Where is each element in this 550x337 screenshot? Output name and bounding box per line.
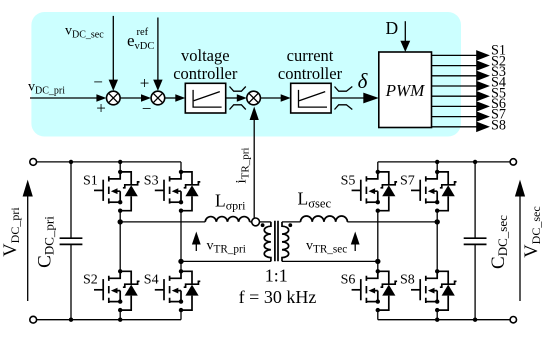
svg-text:S3: S3: [144, 173, 159, 188]
transistor S3: [155, 170, 201, 213]
transformer core: [275, 221, 278, 262]
node rail-leg1 bottom: [118, 318, 122, 322]
svg-text:PWM: PWM: [385, 81, 426, 100]
svg-text:current: current: [287, 46, 334, 65]
wire leg S3S4 upper: [180, 162, 182, 172]
transistor S1: [94, 170, 140, 213]
svg-text:voltage: voltage: [181, 46, 230, 65]
wire leg S1S2 lower: [119, 310, 121, 320]
arrowhead into summer J2: [141, 94, 151, 102]
wire PWM output S3: [432, 64, 506, 81]
svg-text:S8: S8: [491, 117, 506, 133]
arrowhead into PWM: [363, 93, 379, 104]
node rail-leg1: [118, 160, 122, 164]
capacitor CDC_pri: [60, 160, 83, 322]
wire bottom rail secondary: [378, 319, 510, 321]
arrowhead into voltage controller: [175, 94, 185, 102]
capacitor CDC_sec: [464, 160, 487, 322]
wire PWM output S7: [432, 107, 506, 123]
limiter mark lower before J3: [230, 105, 246, 110]
svg-text:D: D: [386, 18, 399, 38]
arrowhead iTR_pri into J3: [250, 107, 259, 121]
wire D input: [404, 21, 406, 43]
svg-text:S5: S5: [341, 173, 356, 188]
svg-text:+: +: [140, 74, 150, 93]
node vDC_pri input wire: [30, 97, 99, 99]
arrow VDC_pri: [23, 180, 33, 301]
arrowhead into J3: [237, 94, 247, 102]
wire e_vDC ref vertical: [157, 18, 159, 82]
transistor S7: [411, 170, 457, 213]
node rail-leg4 top: [435, 160, 439, 164]
wire leg S7S8 middle: [436, 211, 438, 272]
node midpoint B: [178, 259, 183, 264]
arrowhead into current controller: [281, 94, 291, 102]
svg-text:S6: S6: [341, 273, 356, 288]
svg-text:−: −: [142, 99, 152, 118]
wire J3 to current controller: [260, 97, 283, 99]
node midpoint D: [435, 219, 440, 224]
arrow vTR_pri: [192, 232, 201, 252]
svg-text:controller: controller: [173, 64, 238, 83]
arrowhead D into PWM: [400, 41, 410, 52]
wire midpoint A to inductor: [120, 221, 205, 223]
arrow VDC_sec: [515, 180, 525, 301]
polarity dot primary: [261, 223, 265, 227]
wire PWM output S2: [432, 53, 506, 71]
wire PWM output S4: [432, 75, 506, 92]
inductor Lσpri: [205, 217, 250, 222]
svg-text:S2: S2: [83, 273, 98, 288]
wire transformer secondary bottom to midpoint C: [282, 260, 378, 262]
wire top rail secondary: [378, 161, 510, 163]
wire vDC_sec vertical: [112, 16, 114, 82]
wire PWM output S8: [432, 117, 506, 133]
wire transformer bottom to midpoint B: [181, 260, 271, 262]
limiter mark lower after current controller: [335, 105, 353, 110]
svg-text:S7: S7: [400, 173, 415, 188]
svg-text:ref: ref: [137, 27, 149, 38]
svg-text:S4: S4: [144, 273, 159, 288]
transistor S6: [352, 269, 398, 312]
wire leg S3S4 lower: [180, 310, 182, 320]
transistor S4: [155, 269, 201, 312]
svg-text:S1: S1: [83, 173, 98, 188]
limiter mark upper after current controller: [335, 87, 353, 92]
wire leg S5S6 upper: [377, 162, 379, 172]
transistor S8: [411, 269, 457, 312]
control-section background panel: [31, 12, 461, 137]
voltage controller block: [185, 83, 225, 113]
transformer primary winding: [264, 222, 271, 262]
wire leg S3S4 middle: [180, 211, 182, 272]
current sensor node: [252, 218, 260, 226]
wire J2 to voltage controller: [165, 97, 178, 99]
node midpoint A: [118, 219, 123, 224]
wire leg S7S8 lower: [436, 310, 438, 320]
wire leg S1S2 middle: [119, 211, 121, 272]
transistor S5: [352, 170, 398, 213]
wire leg S7S8 upper: [436, 162, 438, 172]
transistor S2: [94, 269, 140, 312]
summer J1: [107, 91, 121, 105]
limiter mark upper before J3: [230, 87, 246, 92]
svg-text:controller: controller: [278, 64, 343, 83]
polarity dot secondary: [288, 223, 292, 227]
svg-text:S8: S8: [400, 273, 415, 288]
arrowhead e_vDC into J2: [153, 80, 162, 91]
arrow vTR_sec: [351, 232, 360, 252]
wire J1 to J2: [120, 97, 144, 99]
arrowhead vDC_sec into J1: [109, 80, 118, 91]
arrowhead into summer J1: [96, 94, 106, 102]
node midpoint C: [375, 259, 380, 264]
node rail-leg4 bottom: [435, 318, 439, 322]
summer J2: [151, 91, 165, 105]
svg-text:δ: δ: [358, 69, 369, 93]
inductor Lσsec: [301, 216, 348, 222]
wire sensor to transformer: [260, 221, 271, 223]
wire leg S5S6 lower: [377, 310, 379, 320]
wire leg S5S6 middle: [377, 211, 379, 272]
wire transformer secondary top to inductor: [282, 221, 301, 223]
wire top rail primary: [37, 161, 181, 163]
svg-text:1:1: 1:1: [265, 266, 288, 286]
svg-text:−: −: [93, 73, 103, 92]
wire PWM output S1: [432, 43, 506, 61]
wire voltage controller to J3: [226, 97, 240, 99]
terminal bottom-right: [510, 317, 516, 323]
wire PWM output S6: [432, 96, 506, 112]
wire iTR_pri feedback vertical: [253, 117, 255, 218]
transformer secondary winding: [282, 222, 289, 262]
wire PWM output S5: [432, 85, 506, 101]
block PWM U1: [379, 52, 432, 128]
terminal top-right: [510, 159, 516, 165]
wire current controller to PWM: [331, 97, 364, 99]
wire leg S1S2 upper: [119, 162, 121, 172]
terminal top-left: [30, 159, 37, 166]
current controller block: [291, 83, 331, 113]
summer J3: [247, 91, 261, 105]
svg-text:+: +: [96, 99, 106, 118]
wire inductor to midpoint D: [347, 221, 437, 223]
terminal bottom-left: [30, 316, 37, 323]
svg-text:f = 30 kHz: f = 30 kHz: [239, 287, 317, 307]
wire inductor to sensor: [250, 221, 252, 223]
wire bottom rail primary: [37, 319, 181, 321]
